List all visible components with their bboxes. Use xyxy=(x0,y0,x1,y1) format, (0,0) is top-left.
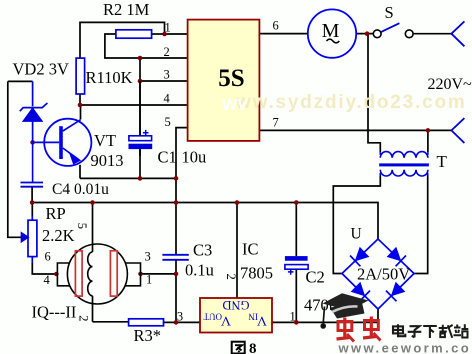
svg-text:1: 1 xyxy=(165,21,171,35)
svg-text:2A/50V: 2A/50V xyxy=(357,265,410,284)
wire C1 bottom lead xyxy=(139,149,141,178)
node pin1/R2 junction xyxy=(162,32,167,37)
watermark glyph xia xyxy=(423,326,437,338)
node emitter/C1 junction xyxy=(138,176,143,181)
node R3 / 7805 pin3 junction xyxy=(174,320,179,325)
wire pin 7 of 5S 220V line xyxy=(259,129,451,131)
svg-text:9013: 9013 xyxy=(91,151,124,170)
wire switch node down to transformer primary xyxy=(368,34,380,153)
svg-text:GND: GND xyxy=(222,298,249,312)
svg-text:T: T xyxy=(437,152,448,171)
svg-text:IN: IN xyxy=(248,312,258,322)
transformer T core xyxy=(379,163,429,166)
IQ right electrode bar xyxy=(110,251,117,296)
IQ right bracket pins 3,1 xyxy=(125,263,141,286)
wire RP bottom to IQ left bracket xyxy=(32,263,57,274)
svg-text:U: U xyxy=(351,226,362,243)
svg-text:6: 6 xyxy=(45,250,51,264)
wire VD2 top to left rail xyxy=(8,80,33,82)
svg-text:C1: C1 xyxy=(158,148,177,167)
wire pin 5 of 5S xyxy=(176,128,188,179)
wire IQ pin5 top lead xyxy=(92,203,94,253)
resistor R1 xyxy=(76,58,85,94)
wire secondary right to bridge right vertex xyxy=(414,176,428,274)
node x176 / rail junction xyxy=(174,200,179,205)
svg-text:7805: 7805 xyxy=(240,264,273,283)
wire IQ pin2 bottom lead xyxy=(92,296,94,322)
wire pin 4 of 5S xyxy=(80,104,188,106)
svg-text:1: 1 xyxy=(290,310,296,324)
watermark glyph zhan xyxy=(454,324,469,337)
svg-text:220V~: 220V~ xyxy=(428,76,472,93)
svg-text:C2: C2 xyxy=(306,268,325,287)
wire C4 bottom lead xyxy=(31,187,33,202)
svg-text:2: 2 xyxy=(224,274,238,280)
wire pins 2-3 vertical at x=140 xyxy=(139,58,141,136)
wire C2 top lead xyxy=(295,203,297,257)
IQ left electrode bar xyxy=(75,251,82,296)
wire left rail down to RP wiper xyxy=(8,81,22,237)
wire C2 bottom lead xyxy=(295,269,297,322)
svg-text:3: 3 xyxy=(145,249,151,263)
wire 7805 pin1 to bridge bottom xyxy=(272,321,378,323)
wire pin 3 of 5S xyxy=(140,80,188,82)
svg-text:6: 6 xyxy=(273,19,279,33)
IC U2 7805 block xyxy=(200,298,272,333)
svg-text:WV: WV xyxy=(222,97,248,114)
svg-text:IQ---II: IQ---II xyxy=(32,303,77,322)
capacitor C2 xyxy=(285,256,308,275)
svg-text:R110K: R110K xyxy=(86,68,133,87)
resistor R3 xyxy=(129,319,164,326)
svg-text:8: 8 xyxy=(249,341,257,354)
wire pin 6 of 5S to motor xyxy=(259,33,307,35)
motor M xyxy=(308,9,356,57)
IQ left bracket pins 6,4 xyxy=(57,263,69,286)
switch S xyxy=(373,23,413,38)
node R1/collector/pin4 junction xyxy=(78,103,83,108)
svg-text:7: 7 xyxy=(273,116,279,130)
capacitor C1 xyxy=(129,81,153,156)
svg-text:4: 4 xyxy=(44,273,51,287)
logo character chong 2 xyxy=(363,317,381,341)
diode D3 lower-left xyxy=(352,283,364,295)
node motor / switch branch xyxy=(365,31,370,36)
wire primary right lead xyxy=(427,130,429,152)
node C2 / rail junction xyxy=(294,200,299,205)
wire R3 to 7805 pin 3 xyxy=(164,321,201,323)
resistor R2 xyxy=(116,30,152,38)
node VT base / VD2 anode xyxy=(30,140,35,145)
svg-text:OUT: OUT xyxy=(203,312,222,322)
wire bridge bottom vertical xyxy=(377,309,379,322)
node pin2 junction xyxy=(138,56,143,61)
wire R2 left lead down to pin 2 xyxy=(105,34,188,58)
diode D4 lower-right xyxy=(392,283,404,295)
wire IQ pin1 to x=176 xyxy=(141,273,177,275)
node emitter rail / x176 junction xyxy=(174,176,179,181)
wire C3 top lead xyxy=(175,203,177,255)
svg-text:5: 5 xyxy=(165,115,171,129)
node 7805 GND / rail junction xyxy=(235,200,240,205)
connector plug top 220V xyxy=(451,21,464,46)
node C4 / rail junction xyxy=(30,200,35,205)
wire 7805 GND up to rail xyxy=(236,203,238,299)
wire IQ bottom to R3 xyxy=(93,321,129,323)
svg-text:VD2 3V: VD2 3V xyxy=(13,60,69,79)
svg-text:4: 4 xyxy=(164,92,171,106)
svg-text:VT: VT xyxy=(94,131,116,150)
svg-text:www.eeworm.com: www.eeworm.com xyxy=(338,341,472,354)
svg-text:0.1u: 0.1u xyxy=(185,261,214,280)
node C3 / IQ pin1 junction xyxy=(174,272,179,277)
svg-text:10u: 10u xyxy=(182,148,207,167)
bridge rectifier U xyxy=(342,239,414,309)
svg-text:IC: IC xyxy=(242,240,259,259)
wire x=176 vertical rail-to-C3 xyxy=(175,178,177,202)
diode D2 upper-right xyxy=(388,248,400,260)
wire motor to switch node xyxy=(356,33,373,35)
wire secondary left to bridge left vertex xyxy=(333,176,380,274)
caption glyph tu (figure) xyxy=(232,342,245,354)
svg-text:S: S xyxy=(385,3,394,22)
node pin3 junction xyxy=(138,79,143,84)
transformer T primary xyxy=(380,152,428,158)
wire collector vertical xyxy=(80,105,82,120)
capacitor C3 xyxy=(162,255,188,260)
wire R2 right lead xyxy=(152,33,165,35)
wire C3 bottom to 7805 pin3 xyxy=(175,260,177,322)
svg-text:RP: RP xyxy=(46,204,66,223)
svg-text:2: 2 xyxy=(164,45,170,59)
svg-text:3: 3 xyxy=(164,68,170,82)
svg-text:C3: C3 xyxy=(193,241,212,260)
svg-text:C4 0.01u: C4 0.01u xyxy=(52,181,109,198)
svg-text:5S: 5S xyxy=(218,65,244,92)
potentiometer RP xyxy=(22,216,37,264)
node 220V line / primary junction xyxy=(426,128,431,133)
svg-text:1: 1 xyxy=(146,273,152,287)
svg-text:3: 3 xyxy=(177,310,183,324)
svg-text:ww.sydzdiy.do23.com: ww.sydzdiy.do23.com xyxy=(235,92,467,113)
wire main rail y=202.5 xyxy=(32,203,378,240)
svg-text:R3*: R3* xyxy=(134,326,162,345)
node IQ pin5 / rail junction xyxy=(90,200,95,205)
logo graduation cap xyxy=(320,293,368,329)
svg-text:2: 2 xyxy=(77,315,91,321)
svg-text:2.2K: 2.2K xyxy=(42,226,75,245)
diode D1 upper-left xyxy=(356,248,368,260)
node C2 / 7805 pin1 junction xyxy=(294,320,299,325)
transistor Q1 VT 9013 xyxy=(35,119,92,166)
wire emitter vertical xyxy=(79,165,81,179)
watermark glyph dian xyxy=(393,324,405,336)
wire pin 1 of 5S xyxy=(165,33,188,35)
wire switch to right connector xyxy=(413,33,451,35)
node IQ right bracket junction xyxy=(138,272,143,277)
watermark glyph zi xyxy=(408,326,422,337)
IQ coil xyxy=(88,252,93,296)
gas sensor IQ xyxy=(57,244,140,304)
wire RP top lead xyxy=(31,203,33,217)
transformer T secondary xyxy=(380,170,428,176)
svg-text:R2 1M: R2 1M xyxy=(103,0,150,19)
zener diode VD2 xyxy=(20,81,48,142)
wire R1 bottom lead xyxy=(79,94,81,105)
wire top rail R1-top to pin1 xyxy=(80,22,165,58)
node RP / IQ left bracket junction xyxy=(54,272,59,277)
wire emitter rail xyxy=(80,177,176,179)
connector plug bottom 220V xyxy=(451,118,464,143)
watermark glyph zai xyxy=(439,325,453,338)
svg-text:5: 5 xyxy=(75,223,89,229)
logo character chong 1 xyxy=(337,318,355,342)
IC U1 5S block xyxy=(188,20,260,141)
capacitor C4 xyxy=(21,142,44,186)
